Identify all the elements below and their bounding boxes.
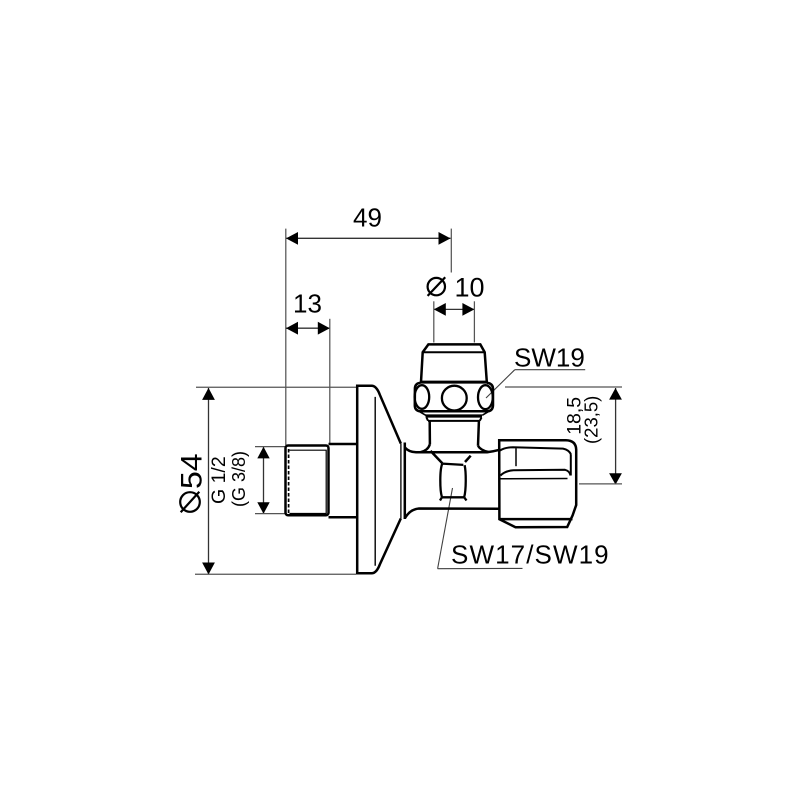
extension lines of Ø54 [196,386,356,388]
dimension 13 [286,327,330,329]
valve: funnel right [465,456,471,462]
dimension Ø10 [434,308,475,310]
valve: nut top facet line [500,447,571,454]
svg-text:G 1/2: G 1/2 [208,456,230,504]
valve: thread crest texture [288,449,290,514]
valve: neck [430,421,479,446]
svg-text:13: 13 [293,289,322,319]
valve: male thread root inner [290,450,327,513]
arrowheads of dimension G 1/2 [257,447,269,514]
arrowheads of dimension 18,5 [609,388,622,485]
arrowheads of dimension 13 [286,322,330,335]
dimension Ø54 [208,388,210,574]
extension lines of Ø10 [433,301,435,342]
valve: male thread G1/2 outer [286,446,329,516]
valve: left shoulder [421,444,430,452]
label Ø10: diameter symbol [428,277,446,296]
svg-text:(G 3/8): (G 3/8) [229,451,249,507]
valve: step below hex [420,412,488,416]
valve: collar ring right edge [404,443,407,520]
valve: nut right inner line [570,455,572,476]
valve: hex right facet ellipse [478,385,493,409]
extension lines of G 1/2 [255,446,287,448]
valve: outlet nut outline [499,440,576,527]
valve: nut bottom edge [499,518,572,521]
valve: funnel left [431,451,443,463]
valve: packing ring band [426,414,483,417]
valve: body bottom line [405,509,500,519]
valve: cap chamfer line [423,351,485,353]
valve: hex left facet ellipse [415,385,430,409]
extension line right of 13 [329,319,331,443]
extension lines of 18,5 [505,386,622,388]
dimension G 1/2 (G 3/8) [263,447,265,514]
svg-text:10: 10 [455,272,485,302]
valve: cap top [421,344,487,382]
valve: body top line [405,448,500,453]
svg-text:SW17/SW19: SW17/SW19 [451,540,610,570]
valve: hex section SW19 [415,382,493,411]
valve: right shoulder [478,446,489,452]
valve: nut waist upper [501,470,571,476]
valve: rosette rim line [374,397,376,566]
dimension 18,5 (23,5) [615,388,617,484]
valve: nut facet divider [515,448,517,466]
svg-text:54: 54 [174,453,208,489]
valve: lower ring [427,418,482,421]
arrowheads of dimension Ø10 [434,303,475,316]
svg-text:SW19: SW19 [514,342,585,372]
valve: lower stub SW17 [440,464,467,501]
extension line right of 49 [450,229,452,273]
svg-text:(23,5): (23,5) [581,396,602,444]
valve: shank between thread and rosette [329,444,357,517]
svg-text:49: 49 [353,202,382,232]
dimension 49 [286,237,451,239]
valve: hex center circle [442,386,467,411]
valve: wall rosette outline [357,386,401,574]
arrowheads of dimension 49 [286,232,451,245]
valve: nut waist lower [501,478,568,480]
valve: collar ring left edge [400,444,402,519]
arrowheads of dimension Ø54 [202,388,215,575]
label Ø54: diameter symbol [180,492,200,512]
extension line left of 49 [285,229,287,445]
